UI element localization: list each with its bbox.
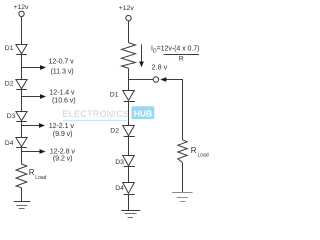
resistor R right top	[122, 43, 136, 69]
svg-text:D4: D4	[115, 185, 124, 192]
wire	[21, 148, 23, 164]
wire node 2 branch	[22, 96, 42, 98]
fraction bar	[164, 54, 200, 56]
svg-text:+12v: +12v	[119, 5, 135, 12]
arrowhead node 2	[40, 94, 46, 99]
diode D2 right	[123, 126, 135, 137]
svg-text:R: R	[179, 55, 184, 62]
diode D3 right	[123, 156, 135, 167]
wire	[128, 21, 130, 43]
svg-text:2.8 v: 2.8 v	[152, 62, 168, 71]
ground left	[14, 202, 30, 209]
svg-text:R: R	[191, 146, 197, 155]
wire	[128, 102, 130, 126]
ground right load	[172, 193, 193, 202]
wire	[21, 54, 23, 79]
arrowhead node 1	[40, 65, 46, 70]
svg-text:D1: D1	[5, 45, 14, 52]
wire node 2.8v branch	[129, 79, 154, 81]
node +12v terminal right circle	[126, 15, 131, 20]
svg-text:D1: D1	[110, 91, 119, 98]
svg-text:+12v: +12v	[14, 4, 30, 11]
wire node 4 branch	[22, 151, 41, 153]
arrowhead node 3	[39, 123, 45, 128]
label formula I_D	[151, 44, 199, 54]
wire	[21, 121, 23, 138]
svg-text:(9.2 v): (9.2 v)	[53, 154, 73, 163]
arrowhead node 4	[40, 149, 46, 154]
wire	[128, 195, 130, 211]
svg-text:D3: D3	[7, 113, 16, 120]
diode D3 left	[16, 112, 27, 122]
wire	[21, 17, 23, 46]
node +12v terminal left circle	[19, 11, 24, 16]
watermark HUB box	[132, 106, 155, 119]
svg-text:HUB: HUB	[134, 108, 152, 118]
svg-text:=12v-(4 x 0.7): =12v-(4 x 0.7)	[157, 44, 200, 52]
wire	[128, 137, 130, 156]
diode D4 right	[123, 183, 135, 195]
svg-text:12-0.7 v: 12-0.7 v	[49, 57, 75, 66]
svg-text:D2: D2	[110, 128, 119, 135]
wire	[21, 90, 23, 112]
node 2.8v terminal circle	[153, 77, 158, 82]
svg-text:(10.6 v): (10.6 v)	[52, 96, 76, 105]
wire current arrow line	[141, 44, 143, 62]
wire right branch vertical	[182, 80, 184, 140]
ground right chain	[121, 211, 140, 218]
wire node 1 branch	[22, 67, 42, 69]
wire	[182, 163, 184, 193]
svg-text:(11.3 v): (11.3 v)	[51, 66, 74, 75]
resistor R Load left	[16, 164, 27, 188]
wire	[165, 79, 183, 81]
arrowhead node 2.8v left	[160, 77, 166, 82]
diode D1 left	[16, 45, 27, 55]
svg-text:Load: Load	[198, 153, 209, 159]
svg-text:R: R	[29, 168, 35, 177]
arrowhead current down	[139, 62, 144, 68]
svg-text:ELECTRONICS: ELECTRONICS	[63, 109, 130, 119]
wire	[21, 188, 23, 202]
wire node 3 branch	[22, 125, 41, 127]
svg-text:D2: D2	[5, 81, 14, 88]
wire	[128, 167, 130, 183]
diode D1 right	[123, 91, 135, 102]
diode D4 left	[16, 138, 27, 148]
resistor R Load right	[178, 140, 187, 163]
svg-text:D3: D3	[115, 159, 124, 166]
svg-text:Load: Load	[35, 175, 46, 181]
wire	[128, 68, 130, 90]
svg-text:(9.9 v): (9.9 v)	[53, 129, 73, 138]
watermark underline	[63, 120, 128, 122]
diode D2 left	[16, 80, 27, 90]
svg-text:D4: D4	[5, 140, 14, 147]
